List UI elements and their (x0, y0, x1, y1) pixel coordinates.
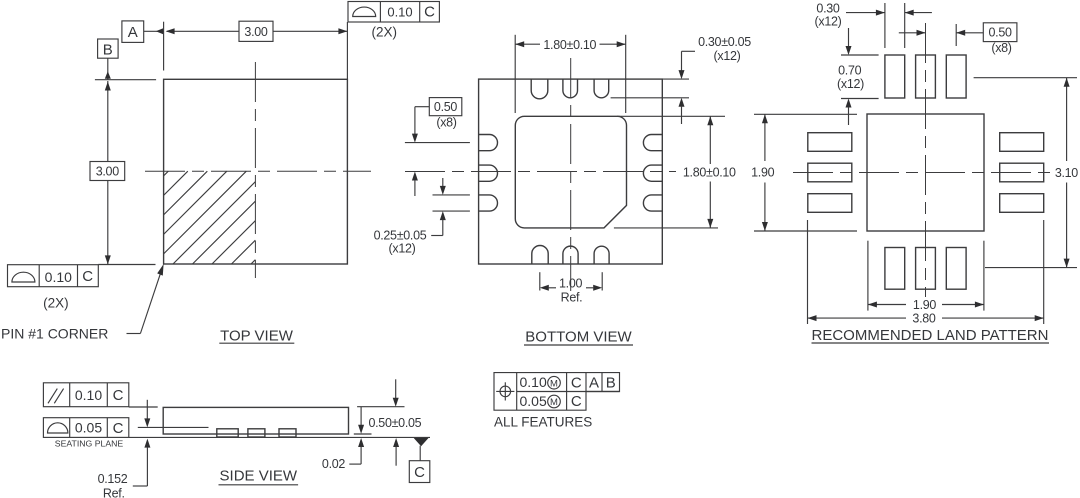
svg-text:A: A (589, 374, 599, 391)
svg-text:1.90: 1.90 (751, 166, 774, 180)
dimension 0.70 (x12): arrows (846, 28, 852, 125)
svg-text:ALL FEATURES: ALL FEATURES (494, 415, 592, 430)
dimension 0.30 (x12): extension lines (885, 3, 905, 48)
svg-text:0.05: 0.05 (75, 420, 102, 436)
bottom view: vertical centerline (570, 58, 572, 291)
extension line at package top from frame (129, 406, 158, 408)
dimension 0.50±0.05: extension line at package top (357, 406, 404, 408)
boxed label 0.50 (x8) (983, 23, 1017, 55)
svg-text:C: C (414, 464, 425, 481)
vertical dimension 3.00: dimension line and arrows (105, 81, 111, 264)
land pattern: horizontal centerline (793, 172, 1051, 174)
feature control frame bottom-left: profile 0.10 C (8, 265, 99, 287)
svg-text:0.25±0.05: 0.25±0.05 (374, 228, 427, 242)
dimension 0.50 (x8): arrows (899, 30, 984, 36)
horizontal dimension 3.00: extension lines (164, 22, 348, 79)
svg-text:0.10: 0.10 (75, 387, 102, 403)
land pattern: left pads (3) (808, 133, 852, 213)
datum C: filled triangle on seating plane (414, 438, 429, 446)
datum A leader with arrowhead (144, 28, 164, 34)
dimension 0.25±0.05 (x12): extension lines (433, 195, 470, 211)
svg-text:A: A (128, 24, 138, 41)
svg-text:(x12): (x12) (815, 15, 842, 29)
dimension 0.25±0.05 (x12): text (374, 228, 427, 255)
boxed label 0.50 (x8) left: box, leader, arrow (412, 98, 462, 196)
tolerance value 0.05 with M circle (520, 393, 561, 409)
datum label B box (98, 39, 119, 59)
title BOTTOM VIEW (524, 329, 633, 346)
land pattern: right pads (3) (1000, 133, 1044, 213)
dimension 1.00 Ref.: extension lines (540, 272, 602, 290)
tolerance value 0.10 with M circle (520, 374, 561, 390)
side view: seating plane line (129, 436, 430, 438)
side view: package body outline (163, 407, 348, 434)
bottom view: bottom edge pads (3) (532, 245, 609, 264)
svg-text:Ref.: Ref. (103, 487, 125, 498)
svg-text:B: B (606, 374, 616, 391)
dimension 3.10 (right): extension lines (974, 78, 1077, 268)
dimension 0.70 (x12): extension lines (841, 55, 879, 99)
position symbol (496, 382, 514, 400)
extension tick at package bottom (354, 433, 372, 435)
svg-text:C: C (424, 4, 435, 21)
feature control frame top-right: profile 0.10 C (348, 2, 439, 23)
top view: horizontal centerline (145, 170, 371, 172)
dimension 0.25±0.05 (x12): arrows and leader (431, 178, 446, 236)
bottom view: exposed center pad with chamfered corner (515, 116, 626, 228)
dimension 1.80±0.10 (right): extension lines (614, 116, 725, 228)
dimension 0.30 (x12): text (815, 1, 842, 28)
dimension 1.90 (left): extension lines (754, 114, 857, 231)
leader arrow to lead shoulder (144, 400, 150, 428)
dimension 0.152 Ref.: text (98, 472, 128, 498)
top view: pin 1 hatched quadrant (164, 171, 256, 264)
dimension 0.30 (x12): dimension line and arrows (846, 10, 932, 16)
boxed dimension value 3.00 (horizontal) (239, 21, 273, 41)
svg-text:C: C (82, 268, 93, 285)
dimension 1.90 (bottom): dimension line, arrows, text (868, 298, 984, 312)
svg-text:SIDE VIEW: SIDE VIEW (220, 468, 298, 485)
dimension 0.50±0.05: arrows (393, 379, 399, 465)
svg-text:B: B (103, 42, 113, 59)
feature control frame: parallelism 0.10 C (43, 383, 128, 407)
svg-text:(x8): (x8) (991, 41, 1011, 55)
svg-text:1.80±0.10: 1.80±0.10 (543, 38, 596, 52)
dimension 3.80: dimension line, arrows, text (808, 312, 1044, 326)
feature control frame: profile 0.05 C (43, 418, 128, 438)
dimension 1.90 (left): dimension line, arrows, text (751, 114, 774, 231)
title RECOMMENDED LAND PATTERN (812, 327, 1050, 344)
dimension 0.152 Ref.: arrow to seating plane (133, 439, 151, 486)
svg-text:BOTTOM VIEW: BOTTOM VIEW (525, 329, 632, 346)
horizontal dimension 3.00: dimension line and arrows (166, 28, 348, 34)
top view: vertical centerline (254, 62, 256, 278)
svg-text:1.90: 1.90 (913, 298, 936, 312)
svg-text:0.70: 0.70 (838, 64, 861, 78)
dimension 0.30±0.05 (x12) top right: extension lines (611, 79, 689, 98)
dimension 1.90 (bottom): extension lines (868, 241, 984, 311)
bottom view: left edge pads (3) (479, 135, 498, 212)
svg-text:0.50: 0.50 (434, 100, 457, 114)
svg-text:(x12): (x12) (714, 49, 741, 63)
title TOP VIEW (219, 327, 294, 344)
datum references C A B (row 1) (571, 374, 616, 391)
svg-text:PIN #1 CORNER: PIN #1 CORNER (1, 325, 108, 341)
composite position tolerance frame: borders (494, 373, 620, 411)
svg-text:M: M (550, 397, 558, 408)
svg-text:0.10: 0.10 (45, 269, 72, 285)
dimension 1.00 Ref.: arrows and text (540, 276, 602, 304)
datum B leader with arrowhead (105, 58, 111, 79)
svg-text:1.00: 1.00 (559, 276, 582, 290)
svg-text:0.05: 0.05 (520, 393, 547, 409)
svg-text:(2X): (2X) (43, 296, 69, 311)
dimension 0.50 (x8): pad centerline tick (955, 24, 957, 46)
svg-text:0.152: 0.152 (98, 472, 128, 486)
dimension 0.30±0.05 (x12): text (698, 35, 751, 63)
svg-text:(x12): (x12) (837, 77, 864, 91)
land pattern: top pads (3) (885, 55, 966, 98)
svg-text:0.10: 0.10 (520, 374, 547, 390)
svg-text:0.50±0.05: 0.50±0.05 (368, 416, 421, 430)
bottom view: top edge pads (3) (531, 79, 609, 99)
svg-text:0.02: 0.02 (322, 457, 345, 471)
svg-text:1.80±0.10: 1.80±0.10 (683, 166, 736, 180)
svg-text:Ref.: Ref. (561, 290, 583, 304)
dimension 0.02: arrows and leader (349, 407, 364, 464)
title SIDE VIEW (219, 468, 299, 485)
land pattern: center pad (867, 114, 984, 231)
svg-text:(x12): (x12) (389, 241, 416, 255)
dimension 0.30±0.05 (x12): leader and arrows (679, 51, 696, 124)
svg-text:3.00: 3.00 (96, 165, 119, 179)
svg-text:C: C (571, 374, 582, 391)
svg-text:0.10: 0.10 (387, 4, 412, 19)
datum label A box (122, 21, 144, 43)
svg-text:3.00: 3.00 (244, 25, 267, 39)
svg-text:3.80: 3.80 (912, 312, 935, 326)
land pattern: vertical centerline (925, 23, 927, 297)
svg-text:M: M (550, 378, 558, 389)
dimension 3.10 (right): dimension line, arrows, text (1055, 78, 1078, 268)
svg-text:C: C (571, 393, 582, 410)
side view: bottom leads (3) (217, 429, 296, 437)
top view: package body outline (164, 79, 348, 264)
dimension 0.70 (x12): text (837, 64, 864, 91)
dimension 1.80±0.10 (top): extension lines (515, 35, 626, 113)
svg-text:(2X): (2X) (372, 25, 398, 40)
bottom view: horizontal centerline (405, 171, 676, 173)
svg-text:(x8): (x8) (436, 116, 456, 130)
svg-text:3.10: 3.10 (1055, 166, 1078, 180)
side view: lead shoulder line (138, 426, 209, 428)
svg-text:SEATING PLANE: SEATING PLANE (55, 438, 124, 448)
svg-text:TOP VIEW: TOP VIEW (220, 327, 294, 344)
vertical dimension 3.00: extension lines (95, 80, 156, 265)
dimension 1.80±0.10 (right): dimension line, arrows, text (683, 116, 736, 228)
bottom view: right edge pads (3) (643, 135, 662, 212)
extension line at left pad 1 centerline (405, 142, 470, 144)
boxed dimension value 3.00 (vertical) (90, 162, 125, 181)
bottom view: package body outline (479, 79, 663, 264)
svg-text:0.30±0.05: 0.30±0.05 (698, 35, 751, 49)
pin #1 corner leader line and arrowhead (127, 264, 164, 334)
svg-text:C: C (113, 387, 124, 404)
svg-text:0.30: 0.30 (816, 1, 839, 15)
svg-text:C: C (113, 420, 124, 437)
dimension 3.80: extension lines (808, 220, 1044, 324)
datum C: leader and box (409, 446, 430, 483)
land pattern: bottom pads (3) (885, 248, 966, 290)
dimension 1.80±0.10 (top): dimension line, arrows, text (515, 38, 626, 52)
svg-text:0.50: 0.50 (989, 26, 1012, 40)
svg-text:RECOMMENDED LAND PATTERN: RECOMMENDED LAND PATTERN (812, 327, 1049, 344)
